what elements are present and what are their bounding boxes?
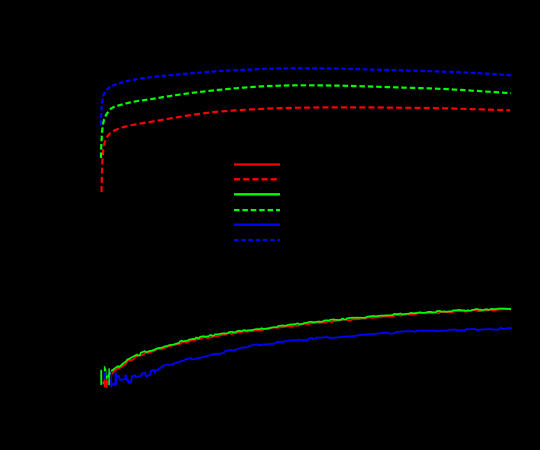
curve blue-solid (lower)	[105, 328, 512, 385]
curve green-dashed (upper)	[101, 85, 511, 158]
legend line red solid	[234, 163, 280, 165]
legend line blue solid	[234, 224, 280, 226]
legend line blue dashed	[234, 239, 280, 241]
legend line green dashed	[234, 209, 280, 211]
curve blue-dashed (upper)	[101, 68, 512, 125]
legend line green solid	[234, 193, 280, 195]
noise spikes blue (curve start)	[104, 371, 116, 387]
noise spikes red (curve start)	[104, 379, 107, 388]
curve red-solid (lower)	[103, 309, 511, 383]
legend line red dashed	[234, 178, 280, 180]
noise spikes green (curve start)	[101, 366, 109, 386]
curve green-solid (lower)	[103, 309, 511, 384]
curve red-dashed (upper)	[102, 107, 511, 192]
